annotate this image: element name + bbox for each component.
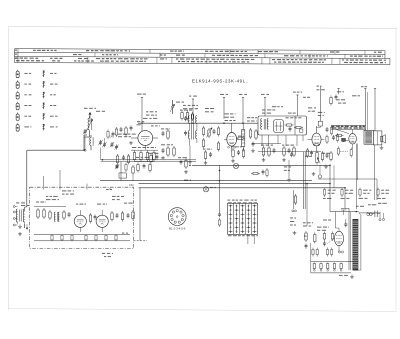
- bottom rail in box: [34, 235, 147, 241]
- tuner small parts: [107, 130, 115, 140]
- legend column1 labels: [24, 73, 31, 128]
- dial lamp LA1: [233, 163, 238, 168]
- wire hv drop2: [333, 165, 335, 188]
- T1 labels: [183, 105, 198, 164]
- left vertical to transformer: [25, 207, 27, 211]
- wire to switch: [218, 165, 221, 227]
- svg-text:E1K914-99S-23K-49L.: E1K914-99S-23K-49L.: [192, 78, 247, 83]
- page edge right: [395, 28, 397, 311]
- cathode parts below V4: [337, 147, 352, 158]
- output transformer T5: [364, 89, 373, 145]
- bus parts mid: [251, 168, 268, 178]
- AGC components: [116, 154, 129, 165]
- table row1 text: [15, 50, 382, 53]
- T4 labels: [262, 106, 296, 113]
- wire bus y187: [139, 187, 346, 189]
- coupling parts C10 R10: [148, 153, 159, 164]
- C80 parts: [284, 152, 293, 182]
- mains transformer T6: [345, 208, 361, 270]
- V4 labels: [336, 91, 346, 103]
- speaker wires: [356, 144, 374, 210]
- trimmer C40: [83, 129, 87, 150]
- resistor right of V2: [236, 136, 245, 140]
- antenna coil L1: [86, 116, 93, 134]
- rectifier label: [317, 227, 329, 231]
- labels in dashed box: [36, 190, 133, 204]
- mains labels: [356, 203, 387, 207]
- output tube V4 UL84: [335, 129, 356, 149]
- schematic title text: [192, 78, 247, 83]
- V2 cathode parts: [231, 146, 245, 158]
- label C62: [129, 180, 191, 188]
- label IG: [304, 234, 307, 238]
- AF filter parts: [282, 145, 295, 157]
- wire bus y183: [139, 183, 331, 185]
- labels above L5: [247, 117, 257, 121]
- tube V5: [74, 210, 86, 232]
- V4 anode blob: [341, 138, 346, 142]
- junction circle: [203, 187, 216, 192]
- wire bus y165: [192, 164, 330, 166]
- svg-text:C62: C62: [129, 184, 134, 187]
- antenna labels: [84, 108, 136, 137]
- svg-text:IG: IG: [304, 234, 307, 238]
- power network labels: [303, 220, 331, 227]
- wire power bus: [330, 211, 359, 213]
- IF coil L5: [242, 123, 245, 151]
- tube V3 UABC80: [308, 126, 325, 151]
- AF rail: [258, 97, 321, 152]
- labels below V1: [132, 147, 156, 148]
- resistors right of IF coil: [249, 128, 257, 147]
- tube socket B9: [168, 208, 186, 226]
- label C43: [109, 135, 114, 138]
- IF transformer T1: [184, 112, 197, 146]
- labels left of V2: [205, 108, 214, 112]
- preamp components: [34, 207, 71, 222]
- auxiliary component group 4: [377, 188, 390, 199]
- ratio detector transformer T4: [252, 116, 307, 146]
- svg-text:C43: C43: [109, 135, 114, 138]
- cathode resistors below V1: [131, 150, 158, 161]
- auxiliary component group 3: [359, 188, 372, 199]
- wires above box: [44, 170, 113, 190]
- tube V1 UCH81: [131, 131, 158, 150]
- socket label: [169, 227, 186, 231]
- rectifier tube V7: [334, 212, 343, 252]
- trimmer C43: [110, 142, 119, 150]
- input terminal labels: [21, 205, 29, 206]
- grid resistor above V3: [317, 121, 323, 127]
- detector load resistors: [261, 145, 276, 157]
- wire antenna link: [84, 133, 90, 150]
- parts right of V3: [326, 126, 339, 145]
- coupling parts C12 R12: [161, 128, 187, 169]
- tube V2 UF89: [224, 123, 239, 151]
- switch S2 tails: [248, 234, 254, 244]
- auxiliary component group 1: [323, 188, 336, 199]
- auxiliary component group 2: [341, 188, 354, 199]
- supply feed wires top: [141, 95, 299, 131]
- supply vertical x320: [317, 86, 325, 122]
- wiring channel labels: [331, 125, 366, 129]
- mains junction: [341, 208, 347, 215]
- power rail mid: [311, 261, 353, 263]
- supply feed labels: [137, 92, 302, 97]
- second row below V1: [132, 157, 151, 181]
- upper heater row: [312, 248, 344, 257]
- label under box: [102, 233, 128, 258]
- AF lower parts: [290, 194, 297, 226]
- wire drop x345: [344, 188, 346, 209]
- switch S2 header labels: [228, 200, 258, 204]
- page edge top: [8, 27, 397, 29]
- wire left vertical drop: [26, 150, 28, 207]
- cap near rectifier: [344, 219, 347, 227]
- wire x140 drop: [139, 188, 141, 241]
- junction dots: [83, 123, 357, 213]
- wire drop x307: [306, 184, 308, 226]
- label S1: [176, 102, 184, 103]
- trimmer C41: [98, 140, 102, 160]
- ground symbols: [18, 141, 328, 236]
- switch S2 bottom labels: [228, 235, 258, 236]
- wire main bus y123: [138, 122, 258, 124]
- wave band switch S2: [228, 203, 258, 234]
- coupling components in box: [89, 210, 134, 224]
- label R1: [180, 110, 192, 111]
- rectifier heater dash: [328, 238, 335, 244]
- input bottom marks: [13, 202, 28, 229]
- parts-list table frame: [14, 49, 390, 65]
- page edge bottom: [8, 309, 397, 312]
- wire hv drop1: [329, 165, 331, 211]
- oscillator resistors R1 R2: [181, 111, 194, 122]
- wire bus y180: [100, 180, 312, 182]
- table row2 text: [15, 54, 383, 57]
- wire antenna bus: [27, 149, 84, 151]
- band switch S1: [170, 100, 175, 114]
- V1 grid components: [115, 126, 132, 138]
- legend column2 labels: [50, 73, 58, 128]
- antenna coil L2: [90, 135, 93, 150]
- screen components above V4: [330, 89, 340, 106]
- loudspeaker LS: [373, 89, 385, 150]
- svg-text:B1-2-3-4-5-6: B1-2-3-4-5-6: [169, 227, 186, 231]
- V2 grid components: [202, 126, 219, 152]
- legend tube outlines column: [16, 70, 19, 132]
- page edge left: [8, 28, 10, 311]
- wire mains bus: [359, 212, 381, 214]
- input transformer T2: [13, 209, 24, 228]
- table row3 text: [15, 58, 386, 64]
- tube V3 labels: [308, 107, 325, 116]
- tube V6: [96, 210, 108, 232]
- AGC filter parts: [161, 144, 175, 157]
- mains capacitor C90: [372, 211, 385, 221]
- power rail low: [311, 272, 351, 274]
- power resistor network: [305, 231, 334, 273]
- tube V1 labels: [137, 111, 160, 126]
- T5 labels: [352, 86, 367, 96]
- heater chain resistors: [313, 263, 342, 272]
- legend tube symbols column: [42, 71, 45, 131]
- trimmer C42: [102, 138, 106, 147]
- dashed chassis enclosure: [30, 187, 134, 248]
- mains switch S3: [367, 212, 372, 216]
- volume control R30: [306, 148, 332, 178]
- antenna terminal: [84, 112, 91, 151]
- labels under power rail: [339, 275, 354, 279]
- V2 screen parts: [203, 149, 212, 161]
- label 0,3: [137, 124, 141, 125]
- AF drop wires: [294, 152, 306, 209]
- tube V2 labels: [225, 113, 236, 121]
- volume feed network: [115, 162, 127, 181]
- volume labels: [305, 153, 330, 157]
- wire bus pair upper: [101, 160, 196, 162]
- feedback wire: [318, 179, 377, 200]
